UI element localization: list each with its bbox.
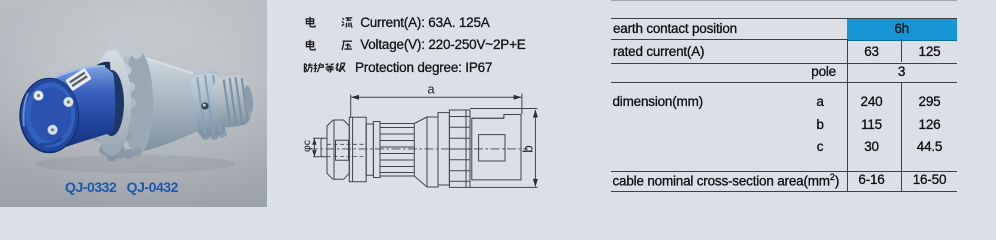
cone xyxy=(414,117,427,187)
soft shadow under plug xyxy=(35,155,235,173)
white label sticker xyxy=(65,68,91,91)
ring front face xyxy=(93,50,131,156)
dim b line xyxy=(534,110,536,187)
row2 text xyxy=(613,44,704,59)
arrowheads b xyxy=(533,110,538,118)
table line r2 bottom xyxy=(611,63,956,64)
arrowheads c xyxy=(312,138,316,145)
spec line 1 xyxy=(304,15,490,30)
front scallop bumps xyxy=(88,45,136,162)
table line r6 bottom xyxy=(611,171,956,172)
blue cell bottom edge xyxy=(847,40,957,41)
svg-text:φc: φc xyxy=(301,140,313,152)
hidden cable lines xyxy=(327,143,364,145)
ring body (depth) xyxy=(112,50,138,156)
dim b extension lines xyxy=(470,109,538,188)
table bottom line xyxy=(611,191,956,192)
housing inner rect xyxy=(479,135,505,161)
model numbers xyxy=(65,179,178,195)
ring flange xyxy=(438,113,449,185)
step xyxy=(373,122,380,178)
table line r1 top xyxy=(611,18,956,19)
arrowheads a xyxy=(351,95,359,100)
blue cylinder body xyxy=(50,66,115,152)
screw detail xyxy=(201,102,208,109)
blue header cell xyxy=(847,19,957,41)
row1 text xyxy=(613,21,737,36)
cap inner vertical xyxy=(333,121,335,180)
neck xyxy=(366,124,373,175)
housing xyxy=(472,115,521,180)
svg-text:a: a xyxy=(427,84,435,97)
table line r3 bottom xyxy=(611,82,956,83)
row7 text xyxy=(613,172,840,189)
vertical value divider r2 xyxy=(901,39,902,62)
gray cone body xyxy=(140,56,214,152)
centerline xyxy=(309,148,528,150)
dim a extension lines xyxy=(351,94,522,118)
scalloped collar xyxy=(192,71,202,81)
dim c line xyxy=(313,139,315,157)
pins xyxy=(34,91,44,101)
end cap xyxy=(212,74,253,128)
ribbed block xyxy=(380,124,414,177)
ribbed ring xyxy=(449,110,470,187)
ring silhouette scallop bumps top/bottom xyxy=(115,47,125,57)
cable entry stub xyxy=(321,138,327,157)
gland cap octagon xyxy=(327,120,349,179)
dim a line xyxy=(351,96,522,98)
spec line 2 xyxy=(304,37,526,52)
spec line 3 xyxy=(302,60,492,75)
table top faint line xyxy=(611,0,957,1)
table line r1 bottom xyxy=(611,39,847,40)
dimension drawing xyxy=(300,84,546,196)
ring inner hole (dark) xyxy=(99,70,124,136)
vertical value divider r4-7 xyxy=(901,82,902,191)
dimension rows xyxy=(613,94,703,109)
gland body xyxy=(349,117,366,182)
vertical col divider xyxy=(847,39,848,191)
svg-text:b: b xyxy=(521,145,536,153)
blue face xyxy=(19,78,79,154)
product photo panel xyxy=(0,0,267,207)
cap inner rect xyxy=(336,140,349,160)
row3 text xyxy=(811,64,836,79)
dim c extension lines xyxy=(313,138,321,157)
dark crevice between body and ring xyxy=(90,62,111,79)
cylinder xyxy=(427,117,438,187)
cable gland cap xyxy=(189,64,257,143)
